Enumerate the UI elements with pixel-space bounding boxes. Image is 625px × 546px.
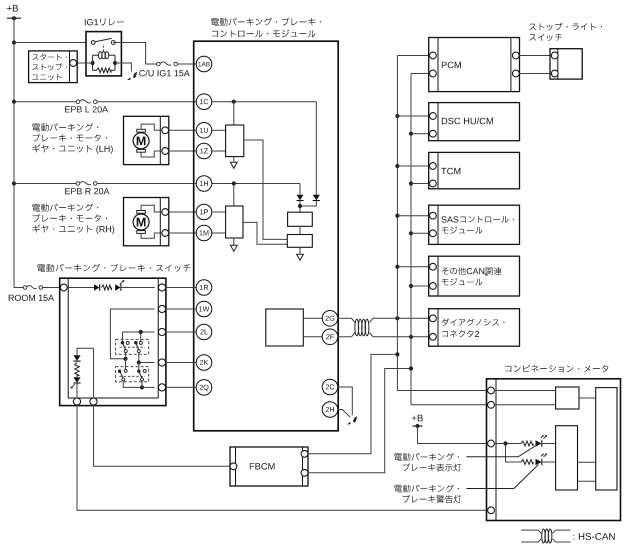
diode LED warning — [536, 459, 542, 466]
pin 1P — [196, 204, 212, 220]
EPB switch terminal 2L — [158, 328, 165, 335]
pin 2K — [196, 355, 212, 371]
pin 2F — [322, 329, 338, 345]
wire poleA down to section2 — [125, 359, 127, 370]
wire LED1 to driver — [543, 443, 556, 445]
wire s1 poleA out — [125, 353, 127, 359]
ground body-ground symbol (2C/2H) — [347, 417, 357, 425]
wire 2L path — [122, 331, 154, 333]
wire lamp to bottom terminal — [76, 383, 78, 397]
leader line warning lamp — [466, 465, 538, 489]
wire RH terminal1 to pin 1P — [169, 211, 197, 213]
wire CAN-L to DSC — [411, 133, 430, 135]
wire pin 1P to driver2 — [212, 211, 226, 213]
wire lamp driver to MCU 2 — [578, 480, 596, 482]
stop light switch label — [529, 23, 602, 41]
switch s1 pole B lever — [136, 343, 139, 350]
wire +B to meter terminal — [418, 426, 488, 444]
pin 2G — [322, 311, 338, 327]
meter MCU block — [596, 388, 617, 490]
legend HS-CAN text — [573, 533, 614, 540]
wire motor M1 to terminals — [141, 124, 162, 157]
wire diode outputs join — [300, 201, 316, 212]
wire pin 1M to driver2 — [212, 232, 226, 234]
wire pin 1U to driver1 — [212, 129, 226, 131]
junction CAN-H FBCM branch — [395, 352, 399, 356]
junction 2L branch — [139, 330, 143, 334]
motor M2 letter M — [137, 218, 146, 227]
wire lamp branch 2 — [506, 444, 522, 463]
switch s2 pole B moving contact — [141, 378, 144, 381]
motor unit RH inner line — [159, 198, 161, 246]
pin 2L — [196, 324, 212, 340]
wire RH terminal2 to pin 1M — [169, 232, 197, 234]
EPB switch left terminal — [60, 284, 67, 291]
wire pin 2H to ground — [338, 410, 350, 418]
wire meter lamp feed — [494, 443, 521, 445]
wire pin 1Z to driver1 — [212, 150, 226, 152]
node relay coil left — [91, 61, 95, 65]
wire 1H down to driver2 — [233, 184, 235, 207]
motor M1 letter M — [137, 137, 146, 146]
CAN transceiver block — [266, 309, 304, 346]
switch s1 pole A fixed contact — [126, 341, 129, 344]
junction CAN-H y116 — [395, 114, 399, 118]
FBCM right terminal 2 — [301, 469, 308, 476]
start-stop unit terminal — [70, 60, 77, 67]
wire 1C branch down to diode D2 — [315, 102, 317, 195]
relay block lower — [287, 235, 312, 248]
junction on +B bus at EPB L row — [12, 100, 16, 104]
wire poleB down to section2 — [138, 363, 140, 370]
PCM terminals left — [430, 52, 437, 77]
EPB switch terminal 2K — [158, 359, 165, 366]
wire CAN-L to other CAN modules — [411, 285, 430, 287]
junction CAN-L y233.3 — [409, 231, 413, 235]
wire +B bus to fuse EPB R — [14, 183, 76, 185]
wire driver2 to internal ground — [233, 238, 235, 245]
motor unit LH box — [124, 116, 169, 164]
switch section 1 linkage — [120, 346, 146, 348]
junction CAN-L FBCM branch — [409, 366, 413, 370]
combination meter box — [487, 379, 621, 521]
wire +B bus to fuse EPB L — [14, 101, 76, 103]
wire transceiver to pin 2F — [303, 336, 322, 338]
switch s1 pole A common — [121, 341, 124, 344]
wire PCM to stop light switch 1 — [519, 55, 551, 57]
wire +B bus vertical — [13, 18, 15, 287]
wire 2Q row — [142, 386, 155, 388]
SAS module box — [429, 205, 520, 244]
pin 2H — [322, 402, 338, 418]
motor M2 circle — [133, 214, 149, 230]
wire CAN-L bus — [410, 74, 412, 405]
leader line indicator lamp — [466, 446, 536, 457]
wire ROOM fuse to switch — [43, 287, 61, 289]
motor unit LH inner line — [159, 116, 161, 164]
pin 1C — [196, 94, 212, 110]
wire s1 poleB out — [138, 353, 140, 363]
wire switch illumination row — [67, 287, 155, 289]
wire meter CAN-H internal — [494, 390, 555, 392]
start-stop unit label — [32, 54, 67, 81]
switch s1 pole B moving contact — [137, 350, 140, 353]
motor M1 circle — [133, 133, 149, 149]
fuse EPB R 20A — [76, 182, 97, 186]
diode LED indicator — [536, 440, 542, 447]
relay IG1 coil-parallel resistor — [97, 68, 112, 73]
diode lamp D6 (LED) — [73, 376, 80, 384]
wire FBCM to CAN branch 1 — [308, 354, 398, 453]
wire +B bus to ROOM fuse — [14, 287, 23, 289]
LED arrow (lamp) — [71, 384, 75, 388]
fuse C/U IG1 15A — [157, 62, 178, 66]
node +B terminal tick — [7, 16, 21, 20]
wire LED2 to driver — [543, 461, 556, 463]
wire pin 2C to ground — [338, 387, 353, 415]
EPB switch bottom terminal A — [73, 398, 80, 405]
DSC HU/CM box — [429, 103, 520, 141]
junction 1C branch — [232, 100, 236, 104]
LED arrows (indicator) — [541, 435, 547, 439]
diode D2 — [313, 195, 320, 201]
wire CAN-L to PCM — [411, 73, 430, 75]
wire relay parallel network sides — [93, 55, 115, 70]
wire lamp branch top bar — [77, 348, 94, 397]
switch s2 pole A fixed contact — [124, 369, 127, 372]
junction 2K row — [137, 360, 141, 364]
switch s2 pole B common — [137, 370, 140, 373]
resistor switch row — [102, 285, 112, 290]
DSC HU/CM label — [442, 118, 493, 125]
switch s1 pole B fixed contact — [139, 341, 142, 344]
EPB switch bottom terminal B — [90, 398, 97, 405]
FBCM label — [250, 463, 275, 470]
wire CAN-L to meter — [411, 404, 487, 406]
FBCM box — [230, 447, 308, 486]
wire fuse EPB L to pin 1C — [97, 101, 196, 103]
pin 1AB — [196, 56, 212, 72]
label C/U IG1 15A — [139, 70, 190, 77]
module EPB control label — [211, 18, 321, 38]
label EPB R 20A — [65, 188, 109, 194]
wire terminal to pin 1R — [166, 287, 197, 289]
stop light switch box — [550, 49, 582, 79]
wire relay coil right to body ground — [115, 63, 131, 72]
module EPB control box — [194, 41, 339, 431]
combination meter label — [505, 365, 608, 373]
label EPB indicator lamp — [394, 453, 461, 472]
diode D1 — [296, 195, 303, 201]
LED arrow (switch row) — [120, 280, 125, 285]
wire fuse to pin 1AB — [178, 63, 197, 65]
resistor meter lamp 2 — [521, 460, 533, 465]
EPB switch terminal 2Q — [158, 384, 165, 391]
junction CAN-H y215.7 — [395, 214, 399, 218]
wire s2 poleB out — [141, 381, 143, 388]
switch section 2 linkage — [120, 375, 146, 377]
label EPB warning lamp — [394, 485, 461, 504]
wire CAN-H to DSC — [397, 115, 429, 117]
twisted pair symbol — [355, 319, 369, 336]
junction CAN-L y183.5 — [409, 181, 413, 185]
diode lamp D5 — [73, 355, 80, 361]
LED arrows (warning) — [541, 453, 547, 457]
motor unit RH terminal 1 — [162, 209, 169, 216]
legend twisted pair right — [553, 530, 571, 542]
wire pin 1H to diode D1 — [212, 184, 300, 195]
switch section 1 dashed box — [116, 339, 149, 354]
label EPB switch — [37, 264, 190, 272]
wire transceiver to pin 2G — [303, 317, 322, 319]
relay IG1 actuator dashed link — [102, 46, 104, 52]
motor M1 brush caps — [137, 129, 146, 152]
junction meter lamp branch — [503, 441, 507, 445]
motor unit RH terminal 2 — [162, 230, 169, 237]
switch s1 pole B common — [134, 341, 137, 344]
wire LH terminal1 to pin 1U — [169, 129, 197, 131]
wire CAN-H bus — [396, 56, 398, 391]
wire CAN-H to other CAN modules — [397, 266, 429, 268]
label EPB L 20A — [65, 106, 108, 112]
TCM terminals — [430, 163, 437, 187]
junction 1W/poleA — [123, 357, 127, 361]
pin 1M — [196, 225, 212, 241]
wire CAN-L to SAS — [411, 232, 430, 234]
resistor lamp — [75, 363, 80, 376]
wire pin 2G to twisted pair — [338, 318, 355, 322]
wire terminal to pin 2Q — [166, 386, 197, 388]
wire CAN-H to PCM — [397, 55, 429, 57]
relay IG1 switch contact right — [111, 41, 115, 45]
relay IG1 coil — [93, 52, 115, 59]
switch s1 pole A lever — [122, 343, 125, 350]
junction CAN-H y266.7 — [395, 265, 399, 269]
junction CAN-L y286 — [409, 284, 413, 288]
junction CAN-L at diag row — [409, 335, 413, 339]
meter terminal +B — [488, 440, 495, 447]
wire lamp driver to MCU 1 — [578, 461, 596, 463]
driver block 1 (LH) — [226, 125, 244, 157]
switch s2 pole B lever — [139, 371, 142, 378]
pin 2C — [322, 379, 338, 395]
driver block 2 (RH) — [226, 206, 243, 238]
junction 2Q row — [140, 385, 144, 389]
net +B label — [7, 5, 18, 12]
label ROOM 15A — [9, 295, 54, 301]
wire relay switch to fuse C/U IG1 — [113, 43, 156, 65]
EPB switch terminal 1R — [158, 284, 165, 291]
diagnosis connector box — [429, 309, 520, 347]
EPB switch box — [60, 278, 166, 405]
junction on +B bus at relay row — [12, 40, 16, 44]
combination meter inner line — [495, 379, 497, 521]
wire switch terminalA to meter (illumination) — [77, 405, 487, 510]
junction on +B bus at EPB R row — [12, 181, 16, 185]
meter terminal illumination — [488, 507, 495, 514]
wire +B bus to IG1 relay — [14, 42, 86, 44]
resistor meter lamp 1 — [521, 441, 533, 446]
wire relay blocks link — [299, 226, 301, 234]
wire PCM to stop light switch 2 — [519, 73, 551, 75]
fuse ROOM 15A — [23, 286, 42, 290]
ground internal (driver2) — [230, 245, 237, 251]
other CAN modules box — [429, 256, 520, 296]
SAS label — [441, 216, 514, 234]
wire driver1 to internal ground — [233, 157, 235, 163]
junction 1H branch — [232, 181, 236, 185]
switch s2 pole A moving contact — [122, 378, 125, 381]
wire driver1 output to relay block — [244, 140, 287, 239]
wire relay coil left to start-stop unit — [77, 62, 93, 64]
motor M2 brush caps — [137, 211, 146, 234]
motor unit LH terminal 1 — [162, 127, 169, 134]
pin 1W — [196, 301, 212, 317]
wire CAN-L to TCM — [411, 183, 430, 185]
switch s2 pole B fixed contact — [143, 369, 146, 372]
wire terminal to pin 2K — [166, 362, 197, 364]
ground internal (relay block) — [297, 254, 304, 260]
FBCM right terminal 1 — [301, 450, 308, 457]
legend twisted pair coil — [542, 529, 552, 543]
diagnosis label — [442, 319, 505, 338]
wire fuse EPB R to pin 1H — [97, 183, 196, 185]
wire 1C down to driver1 — [233, 102, 235, 125]
FBCM inner lines — [236, 447, 303, 486]
junction CAN-L y133.7 — [409, 132, 413, 136]
FBCM left terminal — [230, 463, 237, 470]
pin 1R — [196, 280, 212, 296]
wire terminal to pin 2L — [166, 331, 197, 333]
diode switch row D3 — [94, 284, 100, 291]
legend twisted pair left — [521, 530, 541, 542]
wire FBCM to CAN branch 2 — [308, 369, 411, 473]
PCM label — [442, 62, 461, 69]
relay IG1 box — [86, 32, 121, 76]
wire CAN-H to meter — [397, 390, 487, 392]
PCM box — [429, 38, 520, 92]
fuse EPB L 20A — [76, 100, 97, 104]
diagnosis terminals — [430, 315, 437, 340]
pin 2Q — [196, 380, 212, 396]
wire meter CAN-L internal — [494, 404, 555, 406]
ground body-ground symbol (relay coil) — [127, 72, 137, 80]
TCM box — [429, 152, 520, 188]
wire switch terminalB to FBCM — [94, 405, 230, 466]
wire twisted pair to CAN-H — [370, 318, 429, 322]
meter lamp driver block — [556, 426, 578, 490]
meter CAN block — [556, 387, 579, 409]
other CAN label — [442, 267, 502, 285]
wire 2K row — [139, 362, 155, 364]
wire twisted pair to CAN-L — [370, 333, 429, 337]
wire pin 1C to diode junction — [212, 101, 316, 103]
wire terminal to pin 1W — [166, 308, 197, 310]
switch s1 pole A moving contact — [124, 350, 127, 353]
meter terminal CAN-H — [488, 387, 495, 394]
wire s2 poleA out — [123, 381, 142, 388]
pin 1U — [196, 123, 212, 139]
pin 1H — [196, 176, 212, 192]
node +B tick (meter) — [413, 424, 423, 428]
node relay coil right — [113, 61, 117, 65]
relay IG1 label — [85, 19, 124, 26]
wire CAN block to MCU — [579, 397, 596, 399]
wire relay block lower to internal ground — [299, 247, 301, 254]
wire CAN-H to SAS — [397, 215, 429, 217]
wire pin 2F to twisted pair — [338, 333, 355, 337]
TCM label — [441, 168, 460, 175]
PCM terminals right — [512, 52, 519, 77]
DSC terminals — [430, 113, 437, 138]
start-stop unit inner line — [69, 51, 71, 83]
junction CAN-H at diag row — [395, 316, 399, 320]
meter terminal CAN-L — [488, 401, 495, 408]
EPB switch terminal 1W — [158, 305, 165, 312]
relay IG1 switch blade — [95, 38, 111, 41]
switch s2 pole A common — [118, 370, 121, 373]
stop light switch terminals — [551, 52, 558, 77]
motor unit LH terminal 2 — [162, 148, 169, 155]
start-stop unit box — [29, 51, 78, 83]
ground internal (driver1) — [230, 162, 237, 168]
wire LH terminal2 to pin 1Z — [169, 150, 197, 152]
relay block upper — [288, 212, 313, 226]
motor unit RH box — [124, 198, 169, 246]
wire 1W path — [110, 309, 154, 359]
switch section 2 dashed box — [116, 367, 149, 382]
label EPB motor gear unit RH — [32, 204, 114, 235]
SAS terminals — [430, 212, 437, 236]
wire motor M2 to terminals — [141, 205, 162, 238]
net +B label (meter) — [412, 415, 423, 422]
diode switch row D4 (LED) — [115, 284, 121, 291]
pin 1Z — [196, 143, 212, 159]
label EPB motor gear unit LH — [32, 123, 112, 154]
other CAN terminals — [430, 263, 437, 289]
wire 2L to pole contacts — [122, 332, 140, 341]
relay IG1 switch contact left — [91, 41, 95, 45]
wire driver2 output to relay block — [243, 222, 287, 244]
junction diode join — [298, 204, 302, 208]
EPB switch inner lines — [68, 278, 158, 398]
switch s2 pole A lever — [120, 371, 124, 378]
wire CAN-H to TCM — [397, 165, 429, 167]
junction CAN-H y166 — [395, 164, 399, 168]
